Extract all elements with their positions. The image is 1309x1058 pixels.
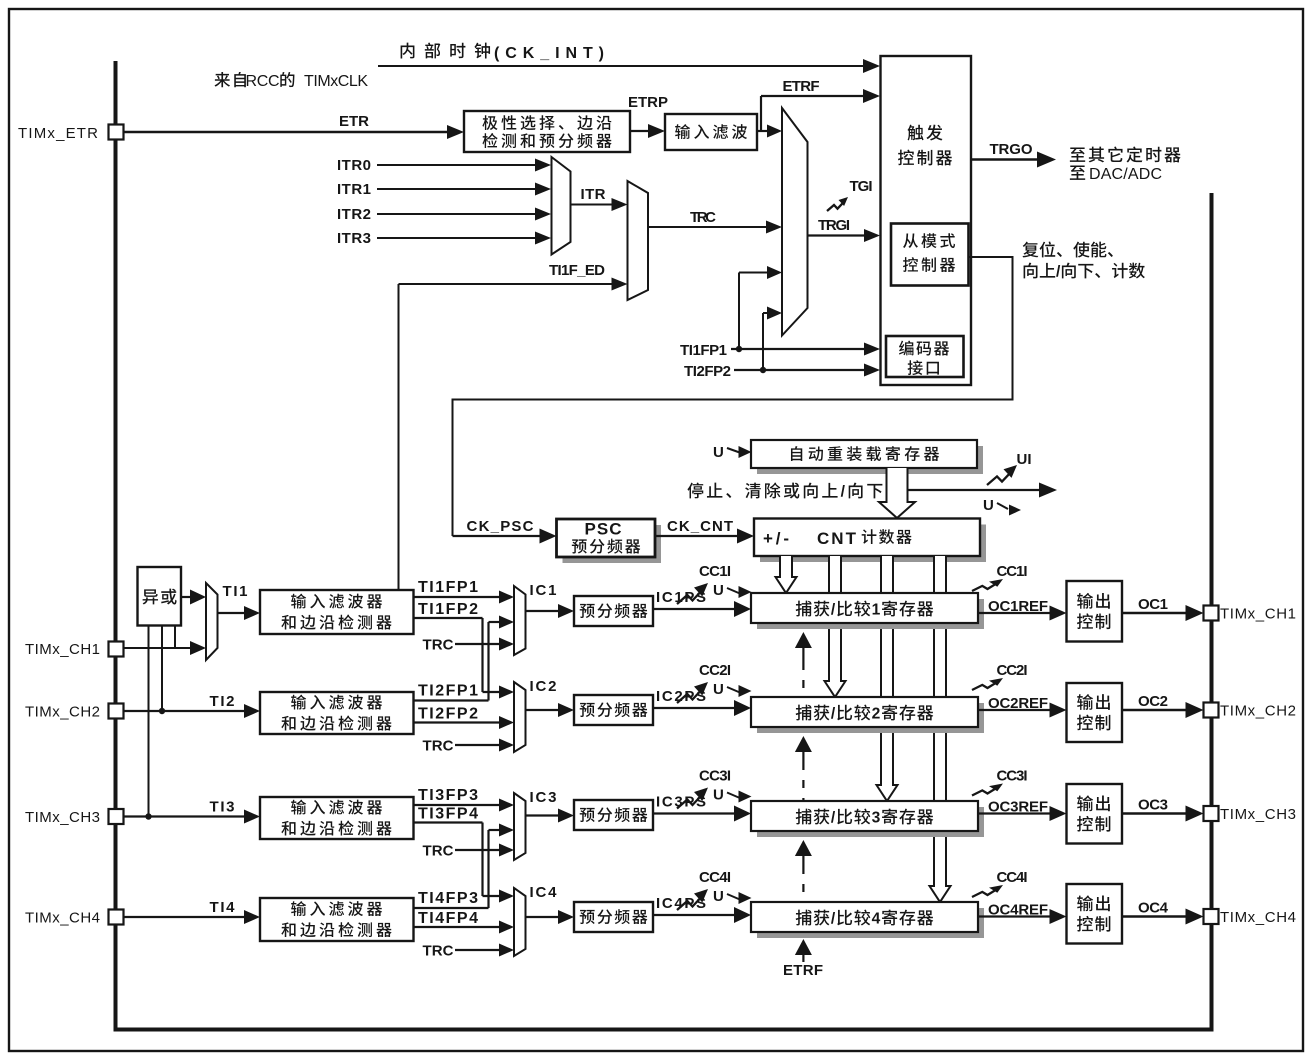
wire OC3REF (978, 799, 1067, 822)
mux: ITR selector (552, 157, 571, 255)
svg-text:OC2: OC2 (1138, 693, 1168, 710)
box: prescaler ch1 (574, 596, 653, 626)
wire TI2FP2 to encoder interface and trigger mux (684, 307, 880, 381)
wire OC2REF (978, 695, 1067, 718)
wire IC1 to prescaler (526, 582, 575, 618)
svg-text:IC1: IC1 (530, 582, 557, 599)
U squiggle into auto-reload register (713, 444, 752, 461)
svg-text:TIMxCLK: TIMxCLK (304, 73, 368, 90)
interrupt UI (987, 451, 1032, 485)
wire TI3FP4 ch3 (414, 806, 515, 903)
svg-text:/: / (831, 810, 836, 827)
svg-text:OC4: OC4 (1138, 900, 1169, 917)
svg-text:TI1F_ED: TI1F_ED (549, 262, 605, 279)
box: encoder interface (886, 336, 964, 377)
mux: trigger input selector (big) (782, 108, 808, 336)
wire ITR to TRC mux (571, 186, 628, 211)
svg-text:ITR3: ITR3 (337, 230, 371, 247)
pad TIMx_ETR (18, 125, 124, 143)
svg-text:ETR: ETR (339, 113, 369, 130)
U squiggle below event wire (983, 497, 1021, 516)
wire IC3PS + U into CCR3 (653, 787, 752, 822)
crossover TI4FP3 up to IC3 mux (489, 824, 515, 909)
label: to other timers / to DAC ADC (1070, 146, 1181, 183)
wire TI1FP1 ch1 (414, 579, 515, 604)
interrupt CC3I right (972, 768, 1028, 796)
interrupt CC3I left (677, 768, 731, 809)
svg-text:U: U (713, 787, 724, 804)
svg-text:TI1FP1: TI1FP1 (418, 579, 478, 596)
mux: IC2 selector (514, 682, 526, 752)
svg-text:IC2PS: IC2PS (656, 688, 706, 705)
box: prescaler ch3 (574, 800, 653, 830)
wire TI1F_ED into TRC mux (399, 262, 628, 590)
wire OC1REF (978, 598, 1067, 621)
wire TI4FP3 ch4 (414, 890, 489, 908)
crossover TI2FP1 up to IC1 mux (489, 616, 515, 701)
svg-text:CC1I: CC1I (997, 563, 1028, 580)
svg-text:CC2I: CC2I (699, 662, 731, 679)
svg-text:DAC/ADC: DAC/ADC (1089, 166, 1162, 183)
svg-text:TIMx_CH2: TIMx_CH2 (1220, 703, 1296, 720)
svg-text:ITR0: ITR0 (337, 157, 371, 174)
svg-text:TI4: TI4 (210, 899, 236, 916)
box: capture/compare register 4 (751, 902, 984, 938)
wire TI1FP2 ch1 (414, 601, 515, 699)
svg-text:U: U (713, 582, 724, 599)
interrupt TGI (827, 178, 873, 211)
label: stopped cleared or up/down (687, 482, 882, 500)
mux: TRC selector (628, 181, 649, 300)
svg-text:TI3: TI3 (210, 799, 235, 816)
wire: slave mode controller to prescaler clock path (453, 257, 1013, 536)
box: slave mode controller (891, 224, 969, 286)
box: output control ch4 (1067, 884, 1123, 944)
svg-text:TIMx_CH1: TIMx_CH1 (25, 641, 100, 658)
box: input filter & edge detector ch3 (260, 797, 414, 839)
wire TI1FP1 to encoder interface and trigger mux (680, 266, 880, 359)
svg-text:PSC: PSC (585, 520, 622, 539)
pad TIMx_CH4 left + wire TI4 (25, 899, 260, 927)
svg-text:TRC: TRC (423, 843, 454, 860)
wire TRGO output (971, 141, 1056, 168)
wire CK_PSC (453, 518, 557, 544)
svg-text:TIMx_CH1: TIMx_CH1 (1220, 606, 1296, 623)
svg-text:TRC: TRC (423, 637, 454, 654)
wire ETR (124, 113, 464, 139)
wire IC1PS + U into CCR1 (653, 582, 752, 617)
svg-text:TI2: TI2 (210, 693, 235, 710)
wire TRC ch1 (423, 637, 515, 654)
box: input filter & edge detector ch2 (260, 692, 414, 734)
wire IC4PS + U into CCR4 (653, 888, 752, 923)
svg-text:TRC: TRC (690, 209, 716, 226)
svg-text:/: / (831, 602, 836, 619)
hollow arrows: CNT to capture/compare registers (776, 556, 951, 902)
svg-text:ETRF: ETRF (783, 78, 820, 95)
svg-text:CC2I: CC2I (997, 662, 1028, 679)
box: auto-reload register (751, 440, 983, 474)
box: output control ch3 (1067, 784, 1123, 844)
box: prescaler ch4 (574, 902, 653, 932)
wire TI2FP1 ch2 (414, 683, 489, 701)
box: capture/compare register 2 (751, 697, 984, 733)
svg-text:IC3PS: IC3PS (656, 794, 706, 811)
interrupt CC1I right (972, 563, 1028, 591)
box: output control ch1 (1067, 581, 1123, 642)
interrupt CC2I right (972, 662, 1028, 690)
svg-text:ITR: ITR (581, 186, 606, 203)
svg-text:/: / (841, 484, 846, 501)
svg-text:U: U (713, 444, 724, 461)
svg-text:RCC: RCC (246, 73, 280, 90)
wire TRC to trigger mux (648, 209, 782, 234)
box: input filter (ETR) (665, 114, 757, 150)
box: input filter & edge detector ch4 (260, 898, 414, 941)
svg-text:CK_CNT: CK_CNT (667, 518, 733, 535)
box: CNT counter (754, 519, 986, 563)
box: input filter & edge detector ch1 (260, 590, 414, 634)
svg-text:TIMx_CH2: TIMx_CH2 (25, 704, 100, 721)
box: XOR (138, 567, 182, 626)
timer boundary thick line left/bottom/right (116, 61, 1212, 1030)
svg-text:3: 3 (872, 810, 881, 827)
wire TRGI to trigger controller (808, 217, 881, 242)
svg-text:TIMx_CH4: TIMx_CH4 (25, 910, 100, 927)
wire CK_INT to trigger controller (378, 59, 880, 73)
svg-text:TI4FP4: TI4FP4 (418, 910, 478, 927)
wire U event to right (908, 483, 1057, 498)
svg-text:TIMx_CH4: TIMx_CH4 (1220, 909, 1296, 926)
box: polarity selection edge detector prescaler (464, 111, 630, 152)
wire TI2FP2 ch2 (414, 706, 515, 730)
pad TIMx_CH3 left + wire TI3 (25, 799, 260, 827)
wire OC3 to pad TIMx_CH3 (1122, 797, 1296, 824)
svg-text:4: 4 (872, 911, 881, 928)
svg-text:OC1: OC1 (1138, 596, 1168, 613)
box: prescaler ch2 (574, 695, 653, 725)
wire OC1 to pad TIMx_CH1 (1122, 596, 1296, 623)
box: output control ch2 (1067, 683, 1123, 742)
svg-text:U: U (983, 497, 994, 514)
svg-text:ETRF: ETRF (783, 962, 823, 979)
interrupt CC2I left (677, 662, 731, 703)
svg-text:TI1: TI1 (223, 583, 248, 600)
svg-text:TI3FP4: TI3FP4 (418, 806, 478, 823)
svg-text:/: / (831, 911, 836, 928)
wire TI1 to input filter 1 (218, 583, 261, 620)
pad TIMx_CH2 left + wire TI2 (25, 693, 260, 721)
svg-text:CC4I: CC4I (997, 869, 1028, 886)
svg-text:TI1FP2: TI1FP2 (418, 601, 478, 618)
svg-text:U: U (713, 888, 724, 905)
svg-text:UI: UI (1017, 451, 1032, 468)
svg-text:TI2FP2: TI2FP2 (418, 706, 478, 723)
svg-text:2: 2 (872, 706, 881, 723)
svg-text:TRC: TRC (423, 943, 454, 960)
XOR input taps (145, 626, 175, 820)
svg-text:/: / (831, 706, 836, 723)
dashed capture line with up arrows + ETRF input (783, 632, 823, 979)
svg-text:CC3I: CC3I (997, 768, 1028, 785)
wire TRC ch4 (423, 943, 515, 960)
svg-text:(CK_INT): (CK_INT) (494, 45, 604, 62)
box: capture/compare register 1 (751, 593, 984, 629)
box U: trigger controller (881, 56, 972, 385)
svg-text:+/-: +/- (763, 529, 789, 548)
wire IC4 to prescaler (526, 884, 575, 924)
svg-text:TRC: TRC (423, 738, 454, 755)
svg-text:TGI: TGI (850, 178, 873, 195)
wire IC3 to prescaler (526, 789, 575, 823)
wire OC2 to pad TIMx_CH2 (1122, 693, 1296, 720)
interrupt CC1I left (677, 563, 731, 604)
svg-text:IC4: IC4 (530, 884, 558, 901)
hollow arrow: ARR to CNT (879, 468, 915, 518)
label: internal clock CK_INT (401, 43, 604, 62)
mux: IC1 selector (514, 586, 526, 655)
wire TRC ch2 (423, 738, 515, 755)
wire IC2PS + U into CCR2 (653, 681, 752, 716)
wire OC4 to pad TIMx_CH4 (1122, 900, 1296, 927)
wire IC2 to prescaler (526, 678, 575, 717)
svg-text:IC2: IC2 (530, 678, 557, 695)
svg-text:1: 1 (872, 602, 881, 619)
wire XOR to TI1 mux (181, 590, 206, 605)
wire TI4FP4 ch4 (414, 910, 515, 934)
svg-text:IC3: IC3 (530, 789, 557, 806)
svg-text:TI2FP2: TI2FP2 (684, 363, 731, 380)
interrupt CC4I left (677, 869, 731, 910)
svg-text:U: U (713, 681, 724, 698)
svg-text:IC4PS: IC4PS (656, 895, 706, 912)
svg-text:ITR2: ITR2 (337, 206, 371, 223)
wires ITR0-ITR3 into mux (337, 157, 551, 174)
svg-text:TI1FP1: TI1FP1 (680, 342, 727, 359)
box: capture/compare register 3 (751, 801, 984, 837)
svg-text:CNT: CNT (817, 529, 857, 548)
svg-text:ITR1: ITR1 (337, 181, 371, 198)
label ETRP + wire to input filter (628, 94, 668, 138)
box: PSC prescaler (557, 519, 662, 563)
svg-text:OC3: OC3 (1138, 797, 1168, 814)
svg-text:ETRP: ETRP (628, 94, 668, 111)
svg-text:TIMx_CH3: TIMx_CH3 (25, 809, 100, 826)
svg-text:IC1PS: IC1PS (656, 589, 706, 606)
svg-text:CC3I: CC3I (699, 768, 731, 785)
label: reset enable up/down count (1022, 241, 1144, 280)
mux: TI1 input selector (206, 583, 218, 660)
mux: IC4 selector (514, 888, 526, 956)
svg-text:TRGI: TRGI (818, 217, 850, 234)
wire OC4REF (978, 902, 1067, 925)
svg-text:TRGO: TRGO (990, 141, 1033, 158)
svg-text:CC1I: CC1I (699, 563, 731, 580)
wire TI3FP3 ch3 (414, 787, 515, 812)
svg-text:TI3FP3: TI3FP3 (418, 787, 478, 804)
pad TIMx_CH1 left + wire to mux (25, 641, 206, 658)
svg-text:CC4I: CC4I (699, 869, 731, 886)
svg-text:TI2FP1: TI2FP1 (418, 683, 478, 700)
svg-text:TIMx_CH3: TIMx_CH3 (1220, 806, 1296, 823)
mux: IC3 selector (514, 793, 526, 860)
svg-text:CK_PSC: CK_PSC (467, 518, 534, 535)
wire ETRF to trigger controller and big mux (757, 78, 880, 138)
svg-text:TI4FP3: TI4FP3 (418, 890, 478, 907)
label: TIMxCLK from RCC (214, 72, 368, 90)
svg-text:/: / (1056, 264, 1061, 281)
wire TRC ch3 (423, 843, 515, 860)
wire CK_CNT (655, 518, 754, 544)
interrupt CC4I right (972, 869, 1028, 897)
